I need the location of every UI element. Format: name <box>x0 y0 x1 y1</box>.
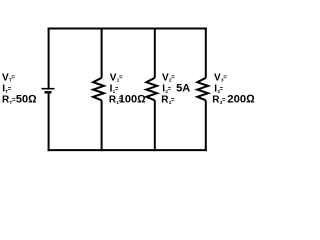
wire left edge below battery <box>48 94 50 152</box>
wire branch 2 below resistor <box>154 100 156 151</box>
battery BT1 long plate <box>42 88 55 90</box>
svg-text:I1=: I1= <box>110 84 119 95</box>
wire branch 1 below resistor <box>101 100 103 151</box>
svg-text:RT=: RT= <box>2 95 16 106</box>
svg-text:100Ω: 100Ω <box>119 94 146 106</box>
svg-text:V3=: V3= <box>214 72 227 83</box>
resistor R1 zigzag <box>93 78 104 101</box>
wire bottom horizontal <box>48 149 207 151</box>
svg-text:R2=: R2= <box>161 95 175 106</box>
wire branch 2 above resistor <box>154 28 156 78</box>
wire right edge below resistor <box>205 100 207 151</box>
battery BT1 short plate <box>45 91 52 93</box>
wire right edge above resistor <box>205 28 207 78</box>
svg-text:V2=: V2= <box>162 72 175 83</box>
svg-text:5A: 5A <box>176 83 190 95</box>
svg-text:50Ω: 50Ω <box>16 94 37 106</box>
wire top horizontal <box>48 28 207 30</box>
svg-text:V1=: V1= <box>110 72 123 83</box>
svg-text:I3=: I3= <box>214 84 223 95</box>
svg-text:R3=: R3= <box>212 95 226 106</box>
svg-text:IT=: IT= <box>2 84 12 95</box>
wire left edge above battery <box>48 28 50 89</box>
resistor R3 zigzag <box>197 78 208 101</box>
svg-text:I2=: I2= <box>162 84 171 95</box>
svg-text:VT=: VT= <box>2 72 15 83</box>
svg-text:200Ω: 200Ω <box>227 94 255 106</box>
resistor R2 zigzag <box>146 78 157 101</box>
wire branch 1 above resistor <box>101 28 103 78</box>
